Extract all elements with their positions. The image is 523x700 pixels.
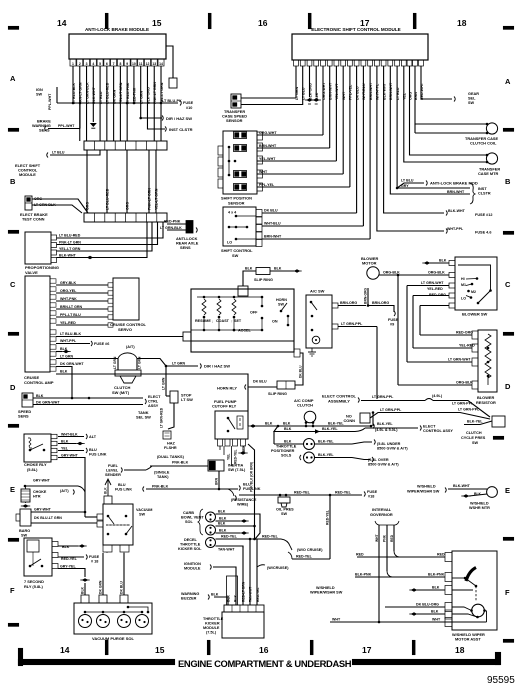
svg-text:BLK: BLK bbox=[474, 492, 482, 496]
svg-text:THROTTLE: THROTTLE bbox=[203, 617, 224, 621]
svg-text:SW: SW bbox=[232, 253, 239, 258]
svg-text:(5.8L UNDER: (5.8L UNDER bbox=[377, 442, 401, 446]
svg-text:LT GRN: LT GRN bbox=[113, 356, 117, 369]
svg-text:LT SW: LT SW bbox=[181, 397, 193, 402]
svg-text:RED-LT GRN: RED-LT GRN bbox=[242, 581, 246, 602]
svg-text:FUSE: FUSE bbox=[367, 490, 378, 494]
svg-text:CUTOFF RLY: CUTOFF RLY bbox=[212, 404, 237, 409]
svg-text:ANTI-LOCK BRAKE MODULE: ANTI-LOCK BRAKE MODULE bbox=[85, 27, 149, 32]
svg-text:BLK: BLK bbox=[274, 267, 282, 271]
svg-text:15: 15 bbox=[152, 18, 162, 28]
svg-text:BRN: BRN bbox=[215, 477, 219, 485]
svg-text:BLK: BLK bbox=[218, 522, 226, 526]
svg-text:RED-YEL: RED-YEL bbox=[221, 535, 238, 539]
svg-text:SW: SW bbox=[36, 93, 43, 97]
svg-text:GRY-WHT: GRY-WHT bbox=[34, 508, 52, 512]
svg-text:IGNITION: IGNITION bbox=[184, 562, 201, 566]
svg-text:SENSOR: SENSOR bbox=[226, 118, 243, 123]
svg-text:BLK-YEL: BLK-YEL bbox=[318, 453, 334, 457]
svg-text:VALVE: VALVE bbox=[25, 270, 38, 275]
svg-text:ORG: ORG bbox=[408, 92, 412, 100]
svg-text:WIPER/WSHR SW: WIPER/WSHR SW bbox=[407, 490, 440, 494]
svg-text:MODULE: MODULE bbox=[184, 567, 201, 571]
svg-text:PPL-LT BLU: PPL-LT BLU bbox=[60, 313, 81, 317]
svg-text:BLK: BLK bbox=[431, 610, 439, 614]
svg-text:9: 9 bbox=[126, 62, 128, 66]
svg-text:YEL-LT GRN: YEL-LT GRN bbox=[119, 82, 123, 104]
svg-text:KICKER SOL: KICKER SOL bbox=[178, 547, 202, 551]
svg-text:LT BLU: LT BLU bbox=[396, 87, 400, 100]
svg-text:RED-ORG: RED-ORG bbox=[429, 293, 446, 297]
svg-text:LT BLU: LT BLU bbox=[52, 151, 65, 155]
svg-text:#9: #9 bbox=[390, 323, 394, 327]
svg-text:DK BLU: DK BLU bbox=[299, 365, 303, 378]
svg-text:ELECTRONIC SHIFT CONTROL MODUL: ELECTRONIC SHIFT CONTROL MODULE bbox=[311, 27, 401, 32]
svg-text:LO: LO bbox=[227, 241, 232, 245]
svg-text:SW (7.5L): SW (7.5L) bbox=[228, 468, 246, 472]
svg-text:LT BLU-RED: LT BLU-RED bbox=[106, 188, 110, 210]
svg-text:BRN-WHT: BRN-WHT bbox=[447, 190, 465, 194]
svg-text:BRN-WHT: BRN-WHT bbox=[329, 82, 333, 100]
svg-text:SW: SW bbox=[139, 513, 146, 517]
svg-text:4 x 4: 4 x 4 bbox=[228, 211, 237, 215]
svg-text:A/C SW: A/C SW bbox=[310, 289, 325, 294]
svg-text:10: 10 bbox=[132, 62, 136, 66]
svg-text:BUZZER: BUZZER bbox=[181, 597, 197, 601]
svg-text:LT GRN-WHT: LT GRN-WHT bbox=[448, 358, 471, 362]
svg-text:WHT-PPL: WHT-PPL bbox=[60, 339, 77, 343]
svg-text:PNK-LT GRN: PNK-LT GRN bbox=[59, 241, 81, 245]
svg-text:16: 16 bbox=[259, 645, 269, 655]
svg-text:BRN-WHT: BRN-WHT bbox=[264, 235, 282, 239]
svg-text:(A/T): (A/T) bbox=[60, 489, 69, 493]
svg-text:95595: 95595 bbox=[487, 675, 515, 686]
svg-text:HORN: HORN bbox=[276, 298, 287, 302]
svg-text:BLK-WHT: BLK-WHT bbox=[448, 209, 466, 213]
svg-text:BLU: BLU bbox=[243, 483, 251, 487]
svg-text:FUSE #12: FUSE #12 bbox=[475, 213, 493, 217]
svg-text:PPL-WHT: PPL-WHT bbox=[58, 124, 75, 128]
svg-text:GRY: GRY bbox=[401, 184, 409, 188]
svg-text:FUEL: FUEL bbox=[108, 464, 119, 468]
svg-text:BLK-YEL: BLK-YEL bbox=[322, 427, 338, 431]
svg-text:B: B bbox=[10, 177, 16, 186]
svg-text:ORG-YEL: ORG-YEL bbox=[60, 289, 77, 293]
svg-text:(A/T): (A/T) bbox=[126, 345, 135, 349]
svg-text:3: 3 bbox=[86, 62, 88, 66]
svg-text:CARB: CARB bbox=[183, 511, 194, 515]
svg-text:FUS LINK: FUS LINK bbox=[89, 453, 107, 457]
svg-text:CLUTCH COIL: CLUTCH COIL bbox=[470, 141, 497, 146]
svg-text:VACUUM: VACUUM bbox=[136, 508, 152, 512]
svg-text:BLK-PNK: BLK-PNK bbox=[355, 573, 372, 577]
svg-text:(5.8L): (5.8L) bbox=[27, 467, 38, 472]
svg-text:WHT-PPL: WHT-PPL bbox=[376, 83, 380, 100]
svg-text:14: 14 bbox=[60, 645, 70, 655]
svg-text:RED-YEL: RED-YEL bbox=[294, 491, 311, 495]
svg-text:ASSEMBLY: ASSEMBLY bbox=[328, 399, 350, 404]
svg-text:(4.9L & 5.0L): (4.9L & 5.0L) bbox=[375, 428, 398, 432]
svg-text:VACUUM PURGE SOL: VACUUM PURGE SOL bbox=[92, 636, 134, 641]
svg-text:BLK: BLK bbox=[265, 422, 273, 426]
svg-text:(5.8L OVER: (5.8L OVER bbox=[368, 458, 389, 462]
svg-text:DIR / HAZ SW: DIR / HAZ SW bbox=[204, 364, 230, 369]
svg-text:SENS: SENS bbox=[18, 414, 29, 419]
svg-text:SENS: SENS bbox=[180, 245, 191, 250]
svg-text:5: 5 bbox=[99, 62, 101, 66]
svg-text:BLU: BLU bbox=[118, 483, 126, 487]
svg-text:GOVERNOR: GOVERNOR bbox=[370, 512, 393, 517]
svg-text:WHT: WHT bbox=[342, 91, 346, 100]
svg-text:PNK-BLK: PNK-BLK bbox=[152, 485, 169, 489]
svg-text:SEL: SEL bbox=[468, 97, 476, 101]
svg-text:SET: SET bbox=[234, 319, 242, 323]
svg-text:FLSHR: FLSHR bbox=[164, 446, 177, 450]
svg-text:LT GRN-PPL: LT GRN-PPL bbox=[452, 402, 474, 406]
svg-text:BLK: BLK bbox=[284, 440, 292, 444]
svg-text:BLK-YEL: BLK-YEL bbox=[467, 420, 483, 424]
svg-text:LT GRN: LT GRN bbox=[140, 90, 144, 104]
svg-text:LT GRN-RED: LT GRN-RED bbox=[160, 407, 164, 428]
svg-text:DK GRN: DK GRN bbox=[99, 580, 103, 594]
svg-text:SENDER: SENDER bbox=[105, 473, 121, 477]
svg-text:LT GRN-PPL: LT GRN-PPL bbox=[341, 322, 363, 326]
svg-text:CLSTR: CLSTR bbox=[478, 192, 491, 196]
svg-text:INST CLSTR: INST CLSTR bbox=[169, 127, 193, 132]
svg-text:PNK-LT GRN: PNK-LT GRN bbox=[148, 188, 152, 210]
svg-text:FUS LINK: FUS LINK bbox=[115, 488, 132, 492]
svg-text:6: 6 bbox=[106, 62, 108, 66]
svg-text:ACCEL: ACCEL bbox=[238, 329, 251, 333]
svg-text:17: 17 bbox=[362, 645, 372, 655]
svg-text:BLK-ORG: BLK-ORG bbox=[308, 83, 312, 100]
svg-text:W/SHIELD: W/SHIELD bbox=[417, 485, 436, 489]
svg-text:DK BLU: DK BLU bbox=[264, 209, 278, 213]
svg-text:RED-PNK: RED-PNK bbox=[164, 220, 181, 224]
svg-text:YEL: YEL bbox=[403, 92, 407, 100]
svg-text:YEL-WHT: YEL-WHT bbox=[259, 157, 276, 161]
svg-text:RED-YEL: RED-YEL bbox=[262, 535, 279, 539]
svg-text:KICKER: KICKER bbox=[205, 622, 220, 626]
svg-text:DK BLU: DK BLU bbox=[253, 380, 267, 384]
svg-text:BLK-WHT: BLK-WHT bbox=[382, 82, 386, 100]
svg-text:SOL: SOL bbox=[185, 520, 193, 524]
svg-text:E: E bbox=[10, 485, 15, 494]
svg-text:WHT: WHT bbox=[332, 618, 341, 622]
svg-text:WHT: WHT bbox=[375, 534, 379, 542]
svg-text:BLK: BLK bbox=[432, 586, 440, 590]
svg-text:WHT-PNK: WHT-PNK bbox=[60, 297, 77, 301]
svg-text:PNK: PNK bbox=[383, 534, 387, 542]
svg-text:WHT-BLU: WHT-BLU bbox=[264, 222, 281, 226]
svg-text:YEL-LT GRN: YEL-LT GRN bbox=[155, 188, 159, 210]
svg-text:DIR / HAZ SW: DIR / HAZ SW bbox=[166, 116, 192, 121]
svg-text:TAN-LT GRN: TAN-LT GRN bbox=[79, 82, 83, 104]
svg-text:LT GRN: LT GRN bbox=[162, 377, 166, 390]
svg-text:7: 7 bbox=[113, 62, 115, 66]
svg-text:ORG-BLK: ORG-BLK bbox=[428, 271, 445, 275]
svg-text:GRY-BLK: GRY-BLK bbox=[60, 281, 76, 285]
svg-text:RESUME: RESUME bbox=[195, 319, 211, 323]
svg-text:BLK-WHT: BLK-WHT bbox=[92, 86, 96, 104]
svg-text:BLK: BLK bbox=[283, 422, 291, 426]
svg-text:LT BLU: LT BLU bbox=[401, 179, 414, 183]
svg-text:LT GRN-PPL: LT GRN-PPL bbox=[380, 408, 402, 412]
svg-text:HI: HI bbox=[461, 277, 465, 281]
svg-text:FUSE: FUSE bbox=[183, 101, 194, 105]
svg-text:SERVO: SERVO bbox=[118, 327, 132, 332]
svg-text:LT BLU-PNK: LT BLU-PNK bbox=[126, 82, 130, 104]
svg-text:ORG-WHT: ORG-WHT bbox=[322, 82, 326, 100]
svg-text:ORG-BLK: ORG-BLK bbox=[456, 381, 473, 385]
svg-text:BLK: BLK bbox=[61, 440, 69, 444]
svg-text:RED: RED bbox=[437, 553, 445, 557]
svg-text:C: C bbox=[10, 280, 16, 289]
svg-text:THROTTLE: THROTTLE bbox=[180, 543, 201, 547]
svg-text:COAST: COAST bbox=[216, 319, 230, 323]
svg-text:BRN-WHT: BRN-WHT bbox=[369, 82, 373, 100]
svg-text:RED-YEL: RED-YEL bbox=[256, 588, 260, 602]
svg-text:LEVEL: LEVEL bbox=[106, 469, 119, 473]
svg-text:MODULE: MODULE bbox=[19, 172, 36, 177]
svg-text:DK BLU: DK BLU bbox=[355, 86, 359, 100]
svg-text:BARO: BARO bbox=[19, 529, 30, 533]
svg-text:GEAR: GEAR bbox=[468, 92, 479, 96]
svg-text:ELECT: ELECT bbox=[148, 395, 161, 399]
svg-text:BLK: BLK bbox=[211, 593, 219, 597]
svg-text:THROTTLE: THROTTLE bbox=[276, 445, 297, 449]
svg-text:SW: SW bbox=[278, 303, 284, 307]
svg-text:INST: INST bbox=[478, 187, 487, 191]
svg-text:D: D bbox=[505, 382, 511, 391]
svg-text:DK BLU: DK BLU bbox=[120, 581, 124, 594]
svg-text:WIPER/WSHR SW: WIPER/WSHR SW bbox=[310, 591, 343, 595]
svg-text:BLK: BLK bbox=[218, 510, 226, 514]
svg-text:CHOKE: CHOKE bbox=[33, 490, 47, 494]
svg-text:FUSE #6: FUSE #6 bbox=[94, 342, 109, 346]
svg-text:#10: #10 bbox=[186, 106, 192, 110]
svg-text:BRN-LT GRN: BRN-LT GRN bbox=[60, 305, 82, 309]
svg-text:1: 1 bbox=[72, 62, 74, 66]
svg-text:(W/O CRUISE): (W/O CRUISE) bbox=[297, 548, 323, 552]
svg-text:D: D bbox=[10, 383, 16, 392]
svg-text:LT BLU: LT BLU bbox=[302, 87, 306, 100]
svg-text:WHT: WHT bbox=[259, 170, 268, 174]
svg-text:SEL SW: SEL SW bbox=[136, 415, 151, 420]
svg-text:BLK: BLK bbox=[245, 267, 253, 271]
svg-text:8500 GVW & A/T): 8500 GVW & A/T) bbox=[368, 463, 399, 467]
svg-text:YEL-LT GRN: YEL-LT GRN bbox=[59, 247, 81, 251]
svg-text:CASE MTR: CASE MTR bbox=[478, 171, 499, 176]
svg-text:FUS LINK: FUS LINK bbox=[243, 487, 261, 491]
svg-text:8: 8 bbox=[119, 62, 121, 66]
svg-text:LT BLU-BLK: LT BLU-BLK bbox=[72, 83, 76, 104]
svg-text:PPL-WHT: PPL-WHT bbox=[48, 93, 52, 110]
svg-text:TAN-WHT: TAN-WHT bbox=[218, 548, 235, 552]
svg-text:DK BLU-ORG: DK BLU-ORG bbox=[416, 603, 439, 607]
svg-text:W/SHIELD: W/SHIELD bbox=[470, 502, 489, 506]
svg-text:RED: RED bbox=[390, 534, 394, 542]
svg-text:↓: ↓ bbox=[212, 320, 214, 324]
svg-text:BLU: BLU bbox=[89, 448, 97, 452]
svg-text:GRY-WHT: GRY-WHT bbox=[61, 454, 79, 458]
svg-text:BLK: BLK bbox=[227, 594, 231, 602]
svg-text:F: F bbox=[10, 586, 15, 595]
svg-text:WIRE): WIRE) bbox=[237, 503, 249, 507]
svg-text:IGN: IGN bbox=[36, 88, 43, 92]
svg-text:B: B bbox=[505, 177, 511, 186]
svg-text:WHT: WHT bbox=[432, 618, 441, 622]
svg-text:ASSY: ASSY bbox=[148, 404, 159, 408]
svg-text:PNK-LT GRN: PNK-LT GRN bbox=[153, 82, 157, 104]
svg-text:MOTOR ASST: MOTOR ASST bbox=[455, 637, 481, 642]
svg-text:CLUTCH: CLUTCH bbox=[297, 403, 313, 408]
svg-text:BLK-YEL: BLK-YEL bbox=[377, 422, 393, 426]
svg-text:POSITIONER: POSITIONER bbox=[271, 449, 295, 453]
svg-text:C: C bbox=[505, 280, 511, 289]
svg-text:(4.9L): (4.9L) bbox=[432, 394, 443, 398]
svg-text:LT GRN: LT GRN bbox=[60, 355, 74, 359]
svg-text:DK BLU-LT GRN: DK BLU-LT GRN bbox=[34, 516, 62, 520]
svg-text:BLK-YEL: BLK-YEL bbox=[328, 422, 344, 426]
svg-text:LT BLU-RED: LT BLU-RED bbox=[106, 82, 110, 104]
svg-text:BRN-ORG: BRN-ORG bbox=[340, 301, 357, 305]
svg-text:FUSE: FUSE bbox=[388, 318, 399, 322]
svg-text:BLK: BLK bbox=[81, 586, 85, 594]
svg-text:ENGINE COMPARTMENT & UNDERDASH: ENGINE COMPARTMENT & UNDERDASH bbox=[178, 658, 352, 669]
svg-text:# 18: # 18 bbox=[91, 560, 98, 564]
svg-text:BLK: BLK bbox=[60, 370, 68, 374]
svg-text:LT BLU-PK: LT BLU-PK bbox=[162, 99, 182, 103]
svg-text:ON: ON bbox=[272, 320, 278, 324]
svg-text:HAZ: HAZ bbox=[167, 442, 175, 446]
svg-text:BLK: BLK bbox=[36, 394, 44, 398]
svg-text:8500 GVW & A/T): 8500 GVW & A/T) bbox=[377, 447, 408, 451]
svg-text:FUSE 4.6: FUSE 4.6 bbox=[475, 231, 491, 235]
svg-text:(RESISTANCE: (RESISTANCE bbox=[231, 498, 257, 502]
svg-text:RED-YEL: RED-YEL bbox=[326, 510, 330, 525]
svg-text:PNK-BLK: PNK-BLK bbox=[172, 461, 189, 465]
svg-text:BLOWER SW: BLOWER SW bbox=[462, 312, 488, 317]
svg-text:OIL PRES: OIL PRES bbox=[276, 508, 294, 512]
svg-text:(7.5L): (7.5L) bbox=[206, 631, 217, 635]
svg-text:PPL-YEL: PPL-YEL bbox=[259, 183, 275, 187]
svg-text:BRN-WHT: BRN-WHT bbox=[259, 144, 277, 148]
svg-text:18: 18 bbox=[457, 18, 467, 28]
svg-text:TANK): TANK) bbox=[157, 475, 169, 479]
svg-text:(DUAL TANKS): (DUAL TANKS) bbox=[157, 455, 185, 459]
svg-text:15: 15 bbox=[155, 645, 165, 655]
svg-text:DK GRN-WHT: DK GRN-WHT bbox=[36, 401, 60, 405]
svg-text:BLK-YEL: BLK-YEL bbox=[318, 440, 334, 444]
svg-text:RESISTOR: RESISTOR bbox=[476, 400, 496, 405]
svg-text:A: A bbox=[505, 77, 511, 86]
svg-text:SW: SW bbox=[472, 441, 479, 445]
svg-text:SW: SW bbox=[281, 512, 288, 516]
svg-text:CONTROL ASSY: CONTROL ASSY bbox=[423, 429, 453, 433]
svg-text:FUSE: FUSE bbox=[89, 555, 100, 559]
svg-text:OFF: OFF bbox=[250, 311, 258, 315]
svg-text:BLK-ORG: BLK-ORG bbox=[146, 87, 150, 104]
svg-text:LT GRN-BLK: LT GRN-BLK bbox=[85, 82, 89, 104]
svg-text:12: 12 bbox=[146, 62, 150, 66]
svg-text:YEL-RED: YEL-RED bbox=[427, 287, 443, 291]
svg-text:CONTROL AMP: CONTROL AMP bbox=[24, 380, 54, 385]
svg-text:YEL-RED: YEL-RED bbox=[459, 344, 475, 348]
svg-text:18: 18 bbox=[455, 645, 465, 655]
svg-text:HORN RLY: HORN RLY bbox=[217, 386, 237, 391]
svg-text:BLK: BLK bbox=[284, 427, 292, 431]
svg-text:M2: M2 bbox=[471, 290, 476, 294]
svg-text:SLIP RING: SLIP RING bbox=[268, 392, 287, 396]
svg-text:ORG: ORG bbox=[86, 202, 90, 210]
svg-text:BOWL VENT: BOWL VENT bbox=[181, 516, 204, 520]
svg-text:CYCLE PRES: CYCLE PRES bbox=[461, 436, 486, 440]
svg-text:ORG: ORG bbox=[126, 202, 130, 210]
svg-text:RED-YEL: RED-YEL bbox=[234, 450, 238, 464]
svg-text:WHT-BLK: WHT-BLK bbox=[61, 433, 78, 437]
svg-text:BLK: BLK bbox=[219, 517, 227, 521]
svg-text:2: 2 bbox=[79, 62, 81, 66]
svg-text:4: 4 bbox=[92, 62, 94, 66]
svg-text:BRN-ORG: BRN-ORG bbox=[364, 287, 368, 304]
svg-text:#18: #18 bbox=[368, 495, 374, 499]
svg-text:BLK-WHT: BLK-WHT bbox=[59, 254, 77, 258]
svg-text:GRY-YEL: GRY-YEL bbox=[60, 565, 76, 569]
svg-text:BLK-PNK: BLK-PNK bbox=[428, 573, 445, 577]
svg-text:11: 11 bbox=[139, 62, 143, 66]
svg-text:RED-ORG: RED-ORG bbox=[456, 331, 473, 335]
svg-text:SW (M/T): SW (M/T) bbox=[112, 390, 130, 395]
svg-text:WSHR MTR: WSHR MTR bbox=[469, 506, 490, 510]
svg-text:TAN-WHT: TAN-WHT bbox=[249, 587, 253, 602]
svg-text:BRN: BRN bbox=[414, 92, 418, 100]
svg-text:LT GRN-PPL: LT GRN-PPL bbox=[458, 408, 480, 412]
svg-text:LO: LO bbox=[461, 297, 466, 301]
svg-text:ELECT: ELECT bbox=[423, 425, 436, 429]
svg-text:BLK-WHT: BLK-WHT bbox=[453, 484, 471, 488]
svg-text:LT GRN-WHT: LT GRN-WHT bbox=[421, 281, 444, 285]
svg-text:SW: SW bbox=[21, 534, 28, 538]
svg-text:A: A bbox=[10, 74, 16, 83]
svg-text:YEL-RED: YEL-RED bbox=[60, 321, 76, 325]
svg-text:MODULE: MODULE bbox=[203, 626, 220, 630]
svg-text:YEL: YEL bbox=[227, 454, 231, 460]
svg-text:W/SHIELD: W/SHIELD bbox=[316, 586, 335, 590]
svg-text:LT BLU-BLK: LT BLU-BLK bbox=[60, 332, 81, 336]
svg-text:CTRL: CTRL bbox=[148, 400, 159, 404]
svg-text:14: 14 bbox=[57, 18, 67, 28]
svg-text:ORG-WHT: ORG-WHT bbox=[259, 131, 277, 135]
svg-text:HTR: HTR bbox=[33, 495, 41, 499]
svg-text:BLK: BLK bbox=[439, 259, 447, 263]
svg-text:M1: M1 bbox=[461, 283, 466, 287]
svg-text:(SINGLE: (SINGLE bbox=[154, 471, 170, 475]
svg-text:RED-YEL: RED-YEL bbox=[61, 557, 78, 561]
svg-text:WHT-BLU: WHT-BLU bbox=[362, 83, 366, 100]
svg-text:BLK: BLK bbox=[234, 594, 238, 602]
svg-text:CLUTCH: CLUTCH bbox=[466, 431, 482, 435]
svg-text:YEL: YEL bbox=[61, 447, 69, 451]
svg-text:WHT-PPL: WHT-PPL bbox=[447, 227, 464, 231]
svg-text:BRN-WHT: BRN-WHT bbox=[389, 82, 393, 100]
svg-text:E: E bbox=[505, 486, 510, 495]
svg-text:LT GRN-PPL: LT GRN-PPL bbox=[372, 395, 394, 399]
svg-text:BLK: BLK bbox=[219, 529, 227, 533]
svg-text:SW: SW bbox=[468, 101, 475, 105]
svg-text:LT GRN: LT GRN bbox=[172, 362, 186, 366]
svg-text:RED-YEL: RED-YEL bbox=[296, 555, 313, 559]
